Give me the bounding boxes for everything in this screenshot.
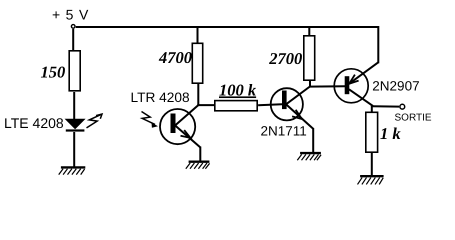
transistor Q1 2N1711 — [271, 86, 314, 129]
ground (Q1) — [297, 153, 321, 160]
wire +5V node to R 150 — [72, 29, 74, 50]
svg-text:2N1711: 2N1711 — [261, 124, 307, 139]
svg-text:4700: 4700 — [158, 48, 192, 67]
wire node C to R1k — [371, 106, 373, 112]
svg-text:100 k: 100 k — [219, 80, 257, 99]
ground (LTR) — [186, 162, 210, 169]
LED emission arrow — [87, 114, 103, 128]
wire node A to phototransistor collector — [175, 104, 199, 125]
wire node C to output — [372, 105, 399, 107]
wire R2700 to node B — [309, 80, 311, 86]
svg-text:SORTIE: SORTIE — [395, 112, 432, 123]
resistor 2700 — [304, 36, 315, 80]
wire rail down to Q2 emitter — [377, 26, 379, 63]
light arrow into LTR — [142, 112, 156, 125]
wire top rail — [76, 26, 379, 28]
wire rail to R2700 — [308, 27, 310, 35]
phototransistor LTR 4208 — [160, 109, 200, 147]
wire R1k to ground — [371, 153, 373, 176]
node +5V supply — [71, 25, 75, 29]
wire LED cathode to ground — [73, 132, 75, 167]
node B wire to Q2 base — [309, 85, 345, 87]
svg-text:LTE 4208: LTE 4208 — [4, 115, 64, 131]
resistor 1 k — [366, 112, 378, 152]
node A wire to R100k — [197, 104, 214, 106]
resistor 4700 — [192, 43, 202, 83]
wire R150 to LED anode — [73, 92, 75, 120]
wire R4700 to node A — [197, 84, 199, 105]
ground (LED) — [59, 167, 86, 174]
svg-text:2700: 2700 — [268, 49, 302, 68]
svg-text:+ 5 V: + 5 V — [52, 7, 89, 23]
wire R100k to Q1 base — [258, 103, 282, 106]
svg-text:LTR 4208: LTR 4208 — [131, 90, 190, 105]
resistor 100 k — [215, 101, 257, 111]
transistor Q2 2N2907 — [334, 62, 378, 106]
svg-text:2N2907: 2N2907 — [372, 78, 419, 93]
resistor 150 — [69, 51, 80, 91]
node SORTIE terminal — [400, 104, 405, 109]
svg-text:1 k: 1 k — [380, 124, 401, 143]
svg-text:150: 150 — [41, 63, 66, 82]
wire Q1 emitter to ground — [312, 128, 314, 152]
LED LTE 4208 — [66, 119, 85, 128]
wire rail to R4700 — [197, 27, 199, 43]
wire LTR emitter to ground — [199, 147, 201, 162]
ground (output) — [358, 176, 384, 184]
